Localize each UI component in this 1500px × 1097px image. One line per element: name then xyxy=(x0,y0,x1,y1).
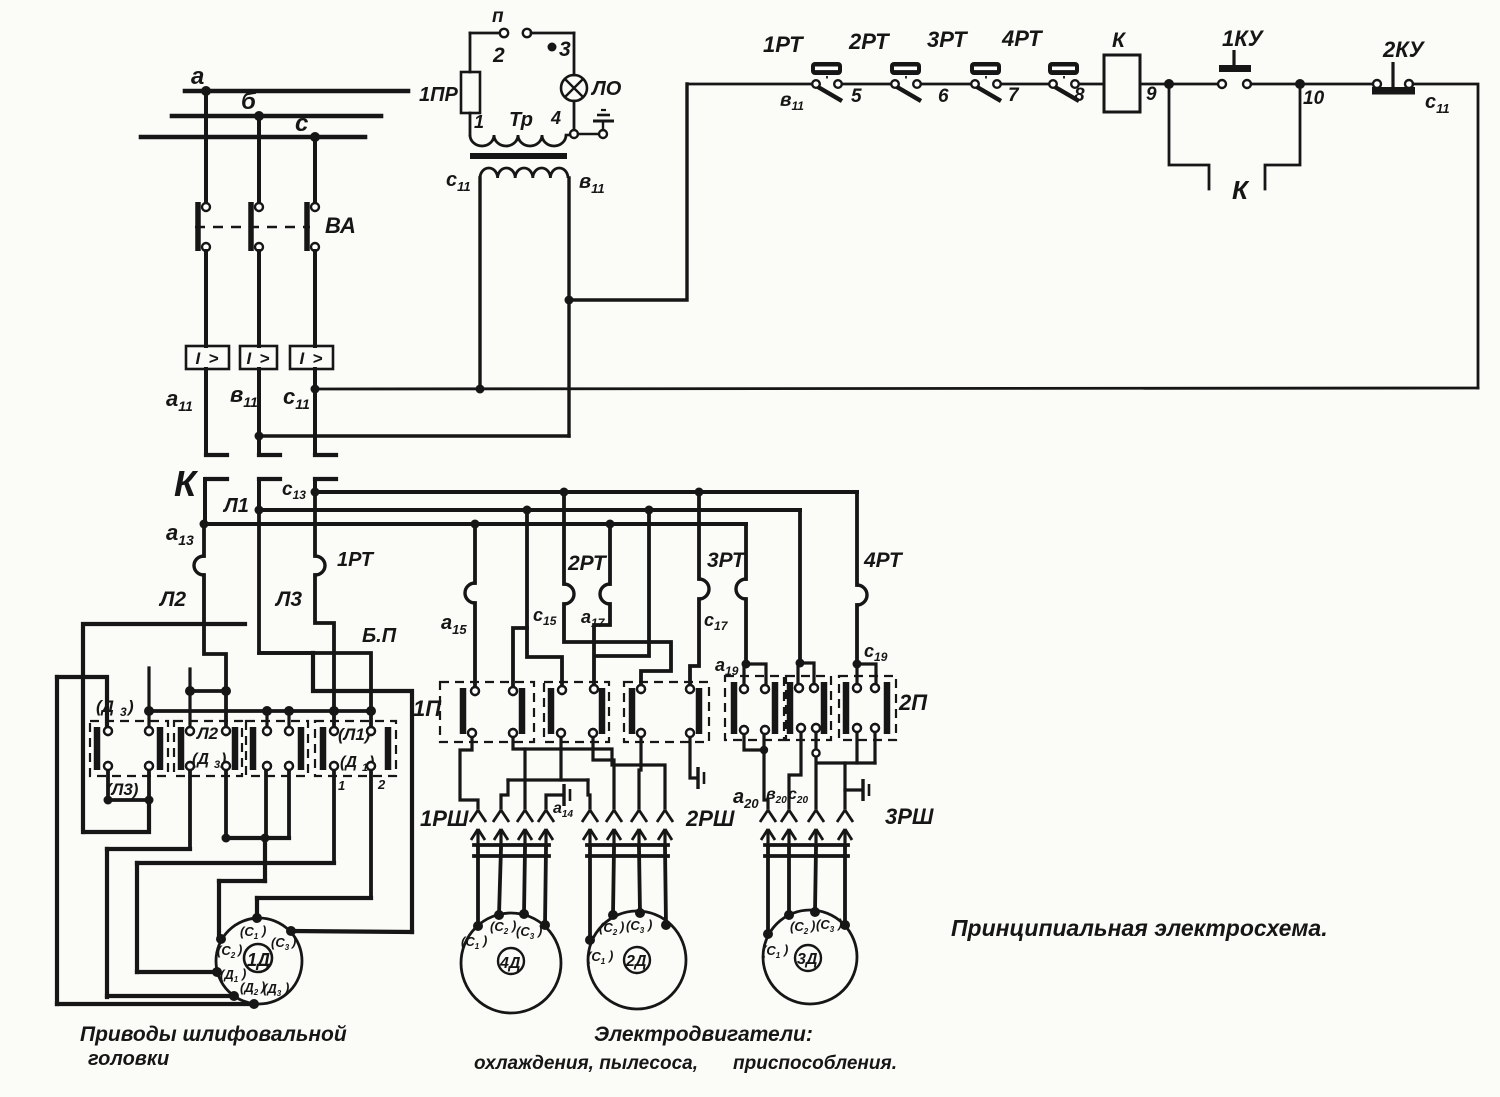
svg-text:1ПР: 1ПР xyxy=(419,84,459,106)
motor 1Д xyxy=(216,918,302,1004)
label с15 xyxy=(533,605,557,628)
wire lamp drop xyxy=(573,33,576,75)
contact box 2П-2 xyxy=(786,676,831,740)
wire box3 right bottom xyxy=(287,766,291,838)
breaker ВА pole 3 xyxy=(304,202,319,251)
svg-text:3: 3 xyxy=(214,759,220,771)
wire 3РШ pin4 riser xyxy=(843,763,846,808)
wire box2 right bottom xyxy=(224,766,228,838)
label 1ПР xyxy=(419,84,459,106)
wire Д1 upper run xyxy=(137,861,334,865)
wire С3 run xyxy=(291,931,412,932)
connector 3РШ pin 3 xyxy=(808,810,824,850)
terminal circles xyxy=(104,684,879,770)
svg-text:Л2: Л2 xyxy=(158,588,186,611)
node bridge b xyxy=(221,686,231,696)
svg-text:2: 2 xyxy=(377,777,386,792)
contacts box3 terminals xyxy=(263,727,293,770)
contactor К main contact pole 3 xyxy=(315,455,336,479)
button 2КУ xyxy=(1372,37,1426,95)
svg-text:с: с xyxy=(295,110,308,137)
label 3РТ xyxy=(707,549,747,572)
node bus 3 xyxy=(284,706,294,716)
wire К to а13 xyxy=(203,479,207,524)
label node 8 xyxy=(1074,85,1085,106)
node б xyxy=(254,111,264,121)
label (Л1) xyxy=(338,725,371,744)
wire control feed xyxy=(687,83,816,86)
svg-text:(Л3): (Л3) xyxy=(106,780,139,799)
label с13 xyxy=(282,479,306,502)
svg-text:2П: 2П xyxy=(898,690,928,715)
wire box4 right bottom xyxy=(369,766,373,898)
wire rail Д2 top xyxy=(107,847,190,851)
contact box 3 xyxy=(246,721,308,776)
transformer Тр secondary winding xyxy=(446,168,605,196)
node а13 start xyxy=(200,520,209,529)
svg-text:2РШ: 2РШ xyxy=(685,806,735,831)
wire 3РТ left drop (с17) xyxy=(690,492,699,689)
svg-text:3РШ: 3РШ xyxy=(885,804,934,829)
labels 3Д xyxy=(762,916,842,960)
terminals 2Д xyxy=(585,908,671,945)
wire Д3 run xyxy=(57,1002,254,1006)
wire phase б drop xyxy=(257,116,261,203)
svg-text:Б.П: Б.П xyxy=(362,625,397,647)
wire trunk B to pin2 xyxy=(501,780,508,808)
label с17 xyxy=(704,610,729,633)
wire а15 drop xyxy=(473,524,477,691)
node с11-secondary xyxy=(476,385,485,394)
svg-text:Л2: Л2 xyxy=(195,724,219,743)
wire с15 drop xyxy=(513,510,562,691)
cable 4Д wire3 xyxy=(524,848,525,914)
svg-text:б: б xyxy=(241,88,257,115)
net Л1 xyxy=(259,508,800,512)
wire 3РШ pin2 xyxy=(789,728,801,808)
phase bus б xyxy=(172,88,381,116)
transformer core xyxy=(470,153,567,159)
wire stub box3 left top xyxy=(265,711,268,731)
node box1 bridge a xyxy=(104,796,113,805)
svg-text:1П: 1П xyxy=(413,696,442,721)
wire Л1 drop xyxy=(259,510,371,731)
wire 2П box2 tie xyxy=(798,663,814,687)
svg-text:Л1: Л1 xyxy=(222,495,249,517)
svg-text:4РТ: 4РТ xyxy=(863,549,904,572)
wire stub box2 left top xyxy=(188,669,191,731)
connector node xyxy=(812,749,819,756)
wire to earth xyxy=(578,133,599,136)
node с19 xyxy=(853,641,888,669)
label node 6 xyxy=(938,86,949,107)
svg-text:2КУ: 2КУ xyxy=(1382,37,1426,62)
wire 3РШ pin3 xyxy=(814,728,817,808)
contactor К auxiliary contact xyxy=(1169,84,1300,205)
label 2П xyxy=(898,690,928,715)
node bridge a xyxy=(185,686,195,696)
breaker ВА pole 2 xyxy=(248,202,263,251)
node С2 a xyxy=(222,834,231,843)
cable 3Д wire3 xyxy=(815,848,816,912)
label pin1 xyxy=(338,778,345,793)
contacts 1П-2 terminals xyxy=(557,685,598,737)
heater 3РТ right xyxy=(736,579,746,599)
svg-text:1Д: 1Д xyxy=(247,950,270,970)
wire stub box3 right top xyxy=(287,711,290,731)
wire К to с13 xyxy=(313,479,317,492)
svg-text:приспособления.: приспособления. xyxy=(733,1053,897,1074)
wire БП riser xyxy=(313,653,412,932)
heater on Л2 drop xyxy=(194,556,204,575)
wire box3 left bottom xyxy=(264,766,268,838)
cable ties motor 2Д xyxy=(587,845,668,856)
svg-text:п: п xyxy=(492,6,504,27)
label а13 xyxy=(166,520,194,548)
wire С2 riser xyxy=(263,838,267,881)
cable 3Д wire1 xyxy=(766,848,770,934)
label 1РШ xyxy=(420,806,469,831)
label 1РТ (heater) xyxy=(337,549,375,571)
wire БП corner xyxy=(259,651,313,655)
net а13 xyxy=(204,522,746,526)
label с11 xyxy=(283,384,310,412)
node с11 xyxy=(311,385,320,394)
svg-text:К: К xyxy=(174,463,199,504)
contacts 2П-3 terminals xyxy=(853,684,879,732)
contact box Л2-Д3 xyxy=(174,721,242,776)
svg-text:6: 6 xyxy=(938,86,949,107)
label (Л3) xyxy=(106,780,139,799)
svg-text:4РТ: 4РТ xyxy=(1001,26,1043,51)
cable 4Д wire4 xyxy=(545,848,546,925)
connector 3РШ pin 4 xyxy=(837,810,853,850)
label 2РТ xyxy=(567,552,608,575)
wire С2 run xyxy=(219,879,265,883)
wire pin4 to chassis xyxy=(845,788,860,791)
connector 2РШ pin 4 xyxy=(657,810,673,850)
label Л2 (box) xyxy=(195,724,219,743)
svg-text:2РТ: 2РТ xyxy=(567,552,608,575)
thermal contact 2РТ xyxy=(848,29,921,101)
node 2РТ right xyxy=(606,520,615,529)
contact box 2П-1 xyxy=(725,676,784,740)
bridge box2 top xyxy=(190,689,226,693)
transformer Тр primary winding xyxy=(470,108,570,146)
terminal Д3 1Д xyxy=(249,980,289,1009)
wire 2РТ right drop xyxy=(594,524,610,689)
thermal contact 1РТ xyxy=(763,32,842,101)
label Б.П xyxy=(362,625,397,647)
connector 1РШ pin 2 xyxy=(493,810,509,850)
thermal contact 3РТ xyxy=(927,27,1001,101)
wire box4 left bottom xyxy=(332,766,336,863)
svg-text:охлаждения, пылесоса,: охлаждения, пылесоса, xyxy=(474,1053,698,1074)
svg-text:>: > xyxy=(313,349,323,368)
ground xyxy=(593,110,614,130)
terminal п pin 2 xyxy=(523,29,574,37)
labels 4Д xyxy=(461,918,542,951)
connector 3РШ pin 2 xyxy=(781,810,797,850)
svg-text:>: > xyxy=(260,349,270,368)
wire 1РШ pin4 to chassis xyxy=(546,795,561,808)
node 2РТ left xyxy=(560,488,569,497)
contacts 2П-2 terminals xyxy=(795,684,820,732)
contacts box4 terminals xyxy=(330,727,375,770)
svg-text:2: 2 xyxy=(492,44,505,67)
svg-text:2Д: 2Д xyxy=(625,953,647,970)
label node 9 xyxy=(1146,84,1157,105)
cable 4Д wire1 xyxy=(476,848,480,926)
label а15 xyxy=(441,612,467,637)
svg-text:1РШ: 1РШ xyxy=(420,806,469,831)
chassis ground 1РШ xyxy=(564,784,570,806)
node bus 1 xyxy=(144,706,154,716)
svg-text:1РТ: 1РТ xyxy=(337,549,375,571)
contact box 1П-3 xyxy=(624,682,709,742)
wire Л2 branch left xyxy=(83,624,245,832)
wire net Л1 to 2П xyxy=(798,510,802,663)
wire phase a drop xyxy=(204,91,208,203)
node 2П b1 xyxy=(760,746,768,754)
wire с19 tie xyxy=(857,664,876,688)
motor 2Д xyxy=(588,911,686,1009)
cable 2Д wire4 xyxy=(665,848,666,925)
wire bus Л1 xyxy=(149,709,371,713)
node С2 b xyxy=(261,834,270,843)
wire 1П b3R to chassis xyxy=(690,733,695,778)
terminal 4 xyxy=(570,130,578,138)
wire ВА to relay б xyxy=(257,251,261,346)
heater 1РТ xyxy=(315,556,325,575)
wire left rail Д3 xyxy=(55,677,59,1004)
wire в11 xyxy=(257,369,261,455)
heater 4РТ xyxy=(857,585,867,605)
contactor К main contact pole 1 xyxy=(206,455,227,479)
heater 2РТ right xyxy=(600,584,610,604)
contact box 1П-1 xyxy=(440,682,534,742)
label К (main contacts) xyxy=(174,463,199,504)
contacts 1П-3 terminals xyxy=(637,685,694,737)
cable 2Д wire2 xyxy=(613,848,614,915)
label в20 xyxy=(766,786,787,806)
caption электродвигатели xyxy=(474,1023,897,1074)
wire 2РТ left drop xyxy=(564,492,671,689)
overcurrent relay phase c xyxy=(290,346,333,369)
wire branch to box1 top xyxy=(57,677,107,731)
wire box1 bottoms bridge xyxy=(108,766,149,800)
label с11 (control) xyxy=(1425,91,1450,116)
terminal С2 1Д xyxy=(216,934,242,960)
contact box Л3-Д3 xyxy=(90,721,168,776)
wire xyxy=(1079,83,1104,86)
wire К to Л1 xyxy=(257,479,261,510)
wire secondary с11 xyxy=(478,178,481,389)
lamp ЛО xyxy=(561,75,622,101)
chassis ground 3РШ xyxy=(863,779,869,801)
contacts 1П-1 terminals xyxy=(468,687,517,737)
wire phase c drop xyxy=(313,137,317,203)
wire С1 run xyxy=(257,896,371,900)
svg-text:3: 3 xyxy=(120,705,127,719)
wire Л2 drop xyxy=(204,524,226,731)
wire С2 tail xyxy=(217,881,221,939)
chassis ground 2РШ xyxy=(698,767,704,789)
svg-text:4: 4 xyxy=(550,108,561,128)
connector 3РШ pin 1 xyxy=(760,810,776,850)
wire 2П b1 bridge xyxy=(744,730,768,808)
node Л1 start xyxy=(255,506,264,515)
node в11 branch xyxy=(565,296,574,305)
wire trunk B to 2РШ pin1 xyxy=(588,780,590,808)
svg-text:1: 1 xyxy=(474,112,484,132)
node 10 junction xyxy=(1295,79,1325,109)
wire control right edge xyxy=(1413,84,1478,388)
wire a11 xyxy=(204,369,208,455)
wire trunk A xyxy=(513,733,665,808)
label а20 xyxy=(733,786,759,811)
wire net Л1 end drop xyxy=(595,510,649,656)
svg-text:К: К xyxy=(1112,29,1127,52)
svg-text:9: 9 xyxy=(1146,84,1157,105)
svg-text:1: 1 xyxy=(338,778,345,793)
contactor coil К xyxy=(1104,29,1140,112)
svg-text:10: 10 xyxy=(1303,88,1325,109)
connector 1РШ pin 1 xyxy=(470,810,486,850)
label node 5 xyxy=(851,86,862,107)
svg-text:Тр: Тр xyxy=(509,109,533,131)
svg-text:3Д: 3Д xyxy=(797,951,818,968)
breaker ВА pole 1 xyxy=(195,202,210,251)
contacts box2 terminals xyxy=(186,727,230,770)
node box1 bridge b xyxy=(145,796,154,805)
wire 1П b2L trunk B xyxy=(508,733,588,780)
svg-text:3: 3 xyxy=(559,38,571,61)
terminal Д1 1Д xyxy=(212,966,246,984)
phase bus a xyxy=(185,63,408,91)
label (Д3) box2 xyxy=(192,751,226,771)
node bus 5 xyxy=(366,706,376,716)
wire 1РТ drop (с13) xyxy=(315,492,334,731)
svg-text:5: 5 xyxy=(851,86,862,107)
phase bus c xyxy=(141,110,365,137)
thermal contact 4РТ xyxy=(1001,26,1079,101)
node в11 xyxy=(255,432,264,441)
label 4РТ xyxy=(863,549,904,572)
wire primary top xyxy=(470,32,499,35)
wire lamp to terminal 4 xyxy=(573,101,576,130)
svg-text:): ) xyxy=(126,697,134,716)
label с20 xyxy=(788,786,808,806)
terminal п pin xyxy=(492,6,508,67)
label pin2 xyxy=(377,777,386,792)
svg-text:а: а xyxy=(191,63,204,90)
cable ties motor 4Д xyxy=(474,845,549,856)
svg-text:1КУ: 1КУ xyxy=(1222,26,1265,51)
net с13 xyxy=(315,490,857,494)
cable 3Д wire2 xyxy=(787,848,791,915)
label а17 xyxy=(581,607,606,630)
motor 4Д xyxy=(461,913,561,1013)
node 3 xyxy=(548,38,572,61)
node а15 xyxy=(471,520,480,529)
node с15 xyxy=(523,506,532,515)
wire 1П b2R to 2РШ pin2 xyxy=(593,733,614,808)
wire С1 tail xyxy=(255,898,259,918)
svg-text:1РТ: 1РТ xyxy=(763,32,804,57)
label а14 xyxy=(553,800,573,820)
node с13 start xyxy=(311,488,320,497)
wire а19 tie xyxy=(744,664,766,689)
contact box 2П-3 xyxy=(839,676,896,740)
contacts 2П-1 terminals xyxy=(740,685,769,734)
contact box Л1-Д1 xyxy=(315,721,396,776)
label Л1 xyxy=(222,495,249,517)
svg-text:(Д: (Д xyxy=(96,697,114,716)
label ВА xyxy=(325,213,356,238)
button 1КУ xyxy=(1218,26,1265,88)
wire xyxy=(1251,83,1377,86)
connector 1РШ pin 3 xyxy=(517,810,533,850)
wire xyxy=(842,83,895,86)
terminals 3Д xyxy=(763,907,850,939)
cable 3Д wire4 xyxy=(843,848,847,925)
fuse 1ПР xyxy=(461,33,480,135)
wire 4РТ drop (с19) xyxy=(855,492,859,664)
label 3РШ xyxy=(885,804,934,829)
svg-text:Приводы шлифовальной: Приводы шлифовальной xyxy=(80,1023,347,1046)
heater 2РТ left xyxy=(564,584,574,604)
connector 2РШ pin 1 xyxy=(582,810,598,850)
contact box 1П-2 xyxy=(544,682,609,742)
wire 2П b3 trunk xyxy=(818,728,875,763)
svg-text:ВА: ВА xyxy=(325,213,356,238)
svg-text:3РТ: 3РТ xyxy=(927,27,968,52)
svg-text:4Д: 4Д xyxy=(499,955,521,972)
cable 2Д wire1 xyxy=(588,848,592,940)
label Л2 xyxy=(158,588,186,611)
connector 2РШ pin 2 xyxy=(606,810,622,850)
label (Д1) xyxy=(340,754,374,774)
wire xyxy=(921,83,975,86)
svg-text:К: К xyxy=(1232,175,1250,205)
svg-text:2РТ: 2РТ xyxy=(848,29,890,54)
label а11 xyxy=(166,386,193,414)
terminal С3 1Д xyxy=(271,926,296,952)
wire Л3 to rail xyxy=(84,800,149,832)
label node 7 xyxy=(1008,85,1020,106)
overcurrent relay phase a xyxy=(186,346,229,369)
svg-text:8: 8 xyxy=(1074,85,1085,106)
node 2П box2 feed xyxy=(796,659,805,668)
wire в11 to control xyxy=(569,84,687,300)
svg-text:Электродвигатели:: Электродвигатели: xyxy=(594,1023,813,1046)
label Л3 xyxy=(274,588,302,611)
cable ties motor 3Д xyxy=(765,845,848,856)
wire xyxy=(1001,83,1053,86)
wire xyxy=(1140,83,1222,86)
label 2РШ xyxy=(685,806,735,831)
contactor К main contact pole 2 xyxy=(259,455,280,479)
wire control return line xyxy=(315,388,1478,389)
wire 1П b3L to 2РШ pin3 xyxy=(639,733,641,808)
earth terminal xyxy=(599,130,607,138)
terminal С1 1Д xyxy=(240,913,266,941)
node net Л1 drop xyxy=(645,506,654,515)
wire Д1 left rail xyxy=(135,863,139,972)
connector 2РШ pin 3 xyxy=(631,810,647,850)
connector 1РШ pin 4 xyxy=(538,810,554,850)
